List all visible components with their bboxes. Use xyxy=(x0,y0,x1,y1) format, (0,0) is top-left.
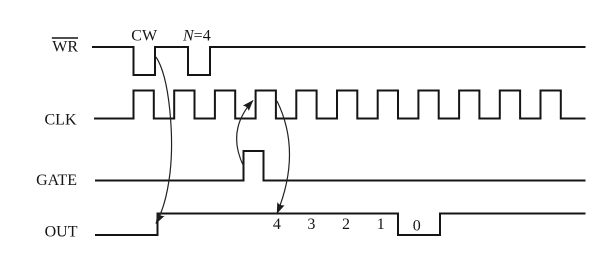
svg-text:CW: CW xyxy=(131,27,158,44)
svg-text:1: 1 xyxy=(377,216,385,233)
svg-text:CLK: CLK xyxy=(45,112,77,129)
svg-text:N=4: N=4 xyxy=(182,28,211,45)
svg-text:OUT: OUT xyxy=(45,223,78,240)
svg-text:WR: WR xyxy=(52,39,78,56)
svg-text:2: 2 xyxy=(342,216,350,233)
svg-text:GATE: GATE xyxy=(36,172,77,189)
svg-text:0: 0 xyxy=(413,218,421,235)
svg-text:3: 3 xyxy=(307,216,315,233)
svg-text:4: 4 xyxy=(273,216,281,233)
